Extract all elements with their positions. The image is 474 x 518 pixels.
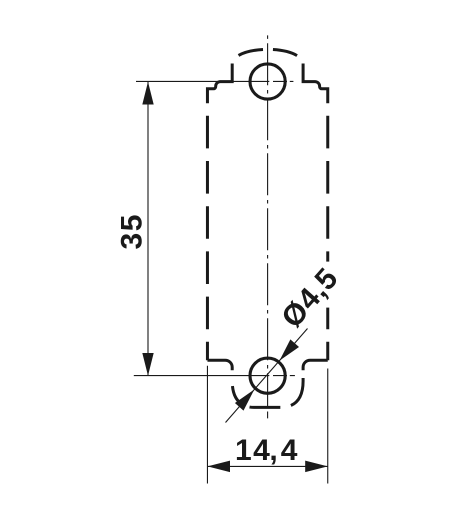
svg-text:14,4: 14,4: [235, 434, 298, 467]
svg-text:35: 35: [115, 213, 148, 249]
